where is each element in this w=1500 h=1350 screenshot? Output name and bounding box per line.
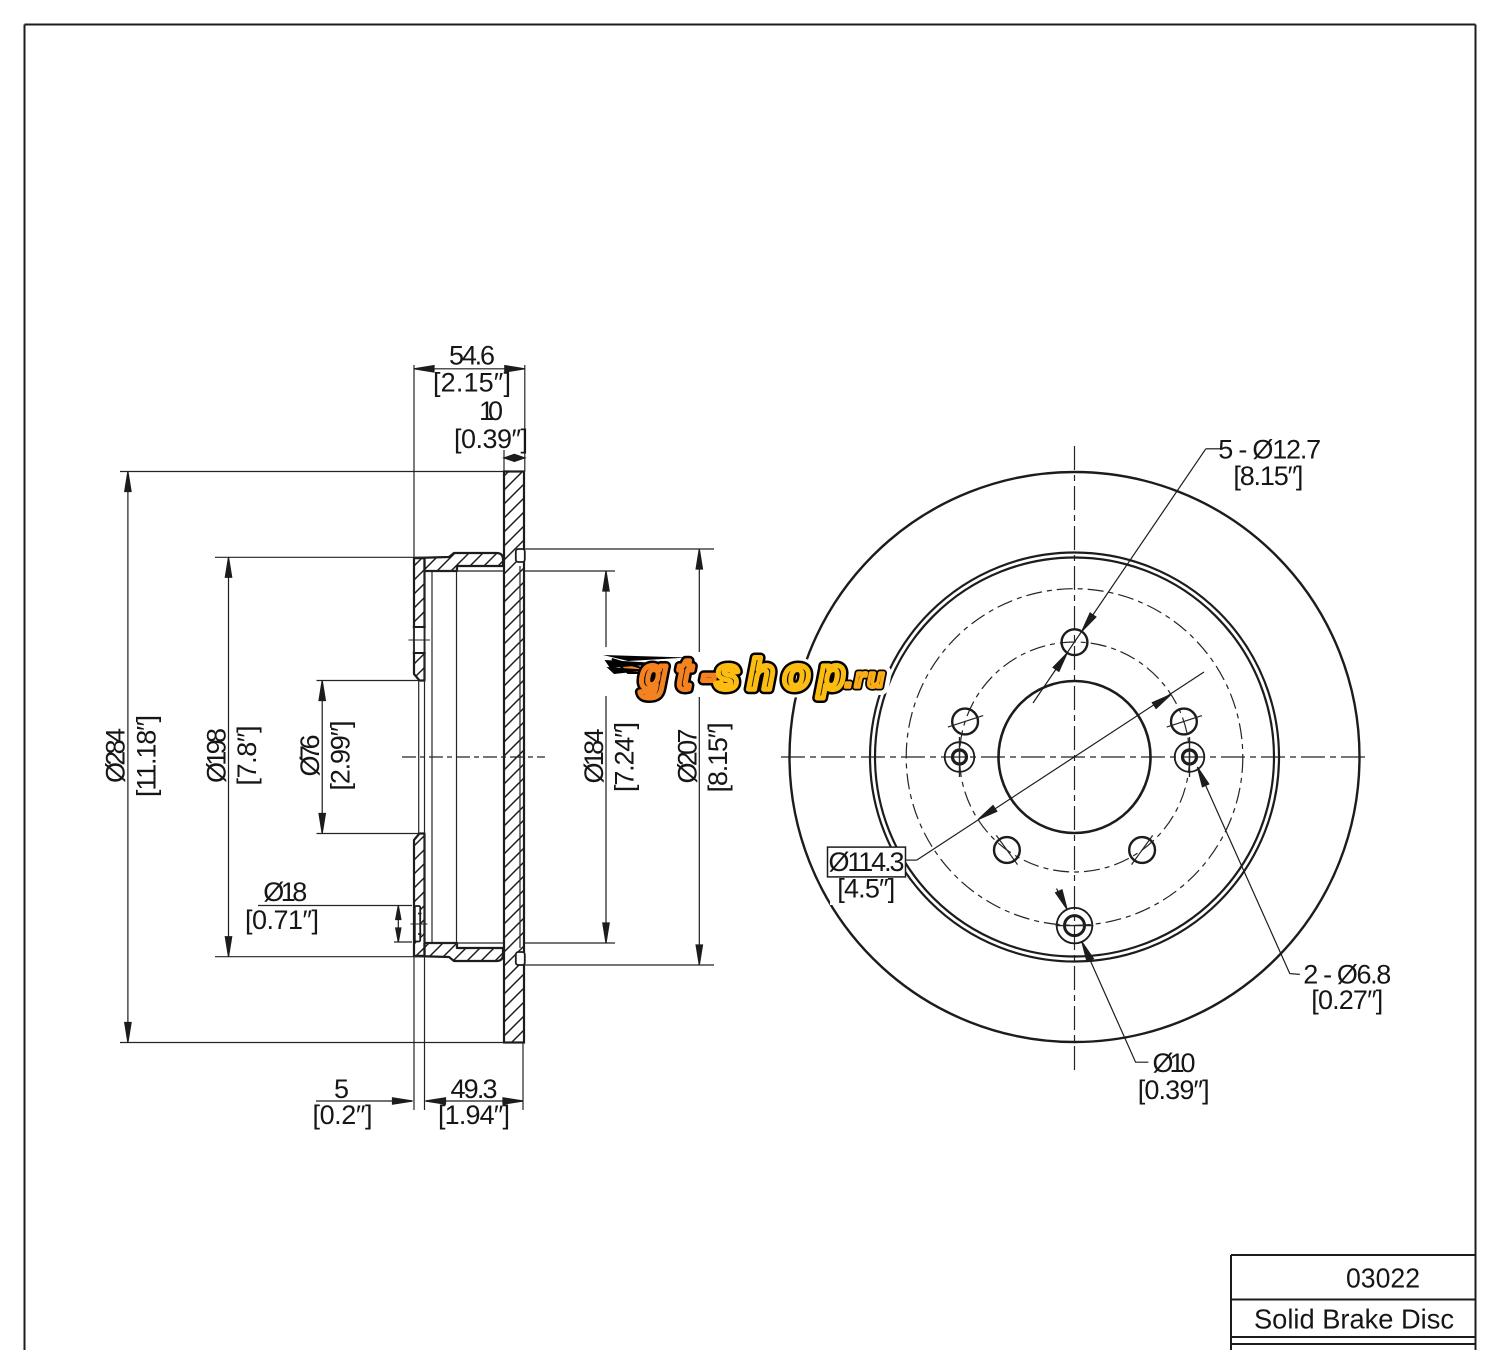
hatched bottom hat wall — [414, 943, 503, 961]
svg-text:[2.99″]: [2.99″] — [326, 721, 356, 791]
svg-text:[8.15″]: [8.15″] — [703, 722, 733, 792]
svg-text:.ru: .ru — [845, 663, 885, 693]
relief notch top — [516, 549, 525, 562]
vertical extension lines for width dims — [414, 365, 525, 1110]
center bore O76 — [999, 681, 1151, 833]
dim 54.6 — [414, 368, 525, 370]
outer circle O284 — [790, 472, 1360, 1042]
dimension texts — [100, 341, 732, 1131]
svg-text:54.6: 54.6 — [449, 341, 495, 371]
white halo knockout — [603, 650, 885, 699]
svg-text:[2.15″]: [2.15″] — [433, 368, 511, 398]
dim O284 — [127, 472, 129, 1043]
dim 10 (diamond) — [504, 457, 525, 459]
svg-text:gt-: gt- — [639, 650, 716, 699]
svg-text:Ø198: Ø198 — [202, 728, 232, 783]
svg-text:[7.24″]: [7.24″] — [610, 722, 640, 792]
TITLE BLOCK — [1231, 1255, 1476, 1350]
orange flame wedge — [612, 659, 658, 673]
dim O198 — [228, 557, 230, 956]
logo text — [639, 650, 885, 699]
5 bolt holes O12.7 — [952, 629, 1197, 863]
svg-text:[1.94″]: [1.94″] — [438, 1100, 510, 1130]
dim O18 — [397, 906, 399, 943]
dim O76 — [321, 681, 323, 834]
svg-text:Ø10: Ø10 — [1153, 1048, 1196, 1078]
dimension lines with arrows — [125, 366, 703, 1105]
dim 5 bottom — [316, 1100, 413, 1102]
relief notch bottom — [516, 952, 525, 965]
dim O207 — [698, 549, 700, 965]
O18 access hole cut — [411, 906, 428, 942]
svg-text:Ø284: Ø284 — [100, 728, 130, 783]
centerlines — [781, 756, 1368, 758]
svg-text:Ø18: Ø18 — [263, 877, 307, 907]
dim O184 — [605, 571, 607, 943]
dim 49.3 bottom — [426, 1100, 524, 1102]
bolt hole cut in flange — [409, 627, 431, 653]
svg-text:03022: 03022 — [1346, 1263, 1420, 1294]
speed streaks — [603, 655, 688, 674]
svg-text:[0.39″]: [0.39″] — [454, 424, 528, 454]
svg-text:[0.27″]: [0.27″] — [1311, 985, 1383, 1015]
svg-text:[8.15″]: [8.15″] — [1233, 461, 1303, 491]
centerline left view — [402, 756, 545, 758]
white knockouts over dim lines in logo band — [598, 653, 648, 696]
right view labels — [829, 435, 1392, 1105]
leader O10 — [1056, 889, 1149, 1063]
svg-text:Ø114.3: Ø114.3 — [829, 847, 905, 877]
svg-text:Ø207: Ø207 — [672, 729, 702, 784]
2 screw holes O6.8 — [945, 742, 1205, 772]
interior visible edges — [419, 566, 520, 948]
radial ticks on bolt holes — [948, 716, 1202, 865]
svg-text:[11.18″]: [11.18″] — [131, 715, 161, 797]
leader 2-O6.8 — [1197, 767, 1299, 974]
outer dash-dot circle through access hole — [906, 589, 1243, 926]
svg-text:Ø76: Ø76 — [295, 735, 325, 777]
hatched top hat wall — [414, 553, 503, 571]
PCD dash-dot circle O114.3 — [960, 642, 1190, 872]
hatched friction ring (section) — [504, 472, 524, 1043]
svg-text:[0.2″]: [0.2″] — [313, 1100, 373, 1130]
svg-text:10: 10 — [479, 396, 503, 426]
hatched flange lower bar — [414, 834, 425, 957]
leader 5-O12.7 — [1033, 449, 1220, 703]
hatched flange upper bar — [414, 558, 425, 681]
svg-text:[0.71″]: [0.71″] — [245, 905, 319, 935]
svg-text:Solid Brake Disc: Solid Brake Disc — [1254, 1304, 1454, 1335]
svg-text:[7.8″]: [7.8″] — [232, 726, 262, 786]
svg-text:[4.5″]: [4.5″] — [837, 874, 895, 904]
leader O114.3 — [906, 672, 1205, 860]
svg-text:Ø184: Ø184 — [579, 729, 609, 784]
friction band inner edge circles — [870, 553, 1279, 962]
O184 inner edge lines / extension lines — [120, 472, 714, 1043]
access hole O18 / O10 — [1057, 908, 1093, 944]
svg-text:[0.39″]: [0.39″] — [1138, 1075, 1210, 1105]
